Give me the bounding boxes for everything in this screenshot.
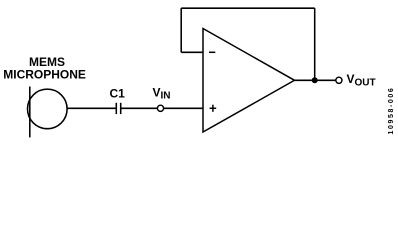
svg-text:VOUT: VOUT (347, 72, 376, 88)
wire inverting input stub (181, 51, 203, 53)
junction dot at output node (312, 77, 318, 83)
feedback wire right vertical (314, 8, 316, 80)
node VIN (open circle) (157, 105, 163, 111)
feedback wire top horizontal (181, 7, 315, 9)
feedback wire left vertical (180, 8, 182, 52)
op-amp minus sign (209, 51, 215, 53)
svg-text:MICROPHONE: MICROPHONE (3, 67, 86, 81)
op-amp plus sign (210, 105, 217, 112)
wire op-amp output (295, 79, 336, 81)
wire microphone to C1 (67, 107, 116, 109)
capacitor C1 (116, 103, 120, 114)
wire C1 to VIN node (121, 107, 158, 109)
wire VIN node to op-amp noninverting input (164, 107, 203, 109)
label MEMS MICROPHONE (3, 55, 86, 82)
node VOUT (open circle) (336, 77, 342, 83)
svg-text:10958-006: 10958-006 (388, 87, 395, 135)
svg-text:C1: C1 (110, 86, 126, 100)
MEMS microphone symbol (28, 87, 68, 138)
svg-text:VIN: VIN (153, 86, 171, 102)
op-amp U1 triangle (203, 29, 295, 133)
